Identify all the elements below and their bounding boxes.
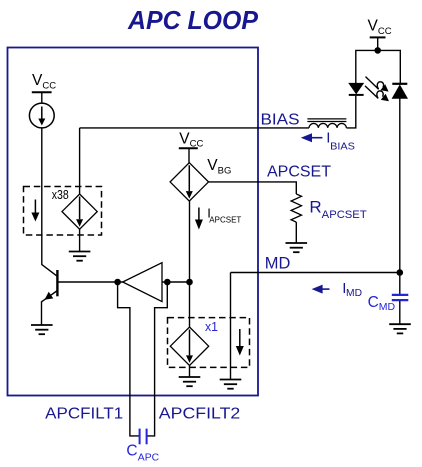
current direction arrow (x1 box right): [236, 329, 244, 356]
current direction arrow (x38 box left): [31, 200, 39, 222]
svg-text:R: R: [309, 198, 321, 217]
capacitor CMD: [392, 295, 409, 300]
node op-amp output junction: [114, 279, 121, 286]
svg-text:APC LOOP: APC LOOP: [127, 5, 259, 35]
wire MD node to CMD: [399, 273, 401, 295]
ground below x1 source: [179, 377, 201, 386]
wire BIAS net vertical to x38 source: [79, 128, 81, 194]
wire inductor to laser diode: [346, 96, 355, 128]
svg-text:BIAS: BIAS: [261, 111, 300, 128]
svg-text:C: C: [126, 443, 137, 460]
wire APCFILT1: [118, 282, 139, 436]
laser diode D1: [349, 83, 364, 95]
transistor Q1 emitter: [42, 291, 58, 326]
svg-text:APCSET: APCSET: [209, 215, 241, 225]
ground below RAPCSET: [286, 243, 308, 252]
wire x38 source to ground: [79, 229, 81, 251]
ground MD sense: [220, 380, 242, 389]
wire MD horizontal: [231, 272, 400, 274]
wire VCC bar to node: [377, 37, 379, 50]
node VCC rail: [374, 47, 381, 54]
ground below CMD: [389, 324, 411, 333]
wire APCFILT2: [147, 282, 167, 436]
svg-text:APCSET: APCSET: [267, 163, 331, 180]
node MD/CMD junction: [397, 269, 404, 276]
svg-text:x1: x1: [205, 320, 218, 334]
wire current source to transistor collector: [42, 128, 58, 276]
light ray arrow 2: [365, 86, 389, 101]
svg-text:MD: MD: [265, 254, 291, 272]
wire VCC-mid to VBG source: [188, 148, 190, 163]
wire top rail: [356, 50, 401, 83]
capacitor CAPC: [140, 429, 147, 445]
wire APCSET: [209, 182, 297, 194]
voltage source VBG: [170, 163, 208, 201]
current arrow IMD: [312, 285, 330, 294]
node op-amp input junction: [164, 279, 171, 286]
svg-text:APCSET: APCSET: [322, 209, 367, 221]
wire x1 source to ground: [189, 365, 191, 377]
svg-text:APC: APC: [138, 452, 160, 464]
dashed box x1 mirror: [168, 318, 250, 368]
ground below transistor emitter: [31, 325, 53, 334]
svg-text:APCFILT2: APCFILT2: [159, 406, 241, 423]
current arrow IAPCSET: [195, 208, 203, 230]
wire op-amp right side to node: [162, 281, 190, 283]
svg-text:APCFILT1: APCFILT1: [45, 406, 123, 423]
wire VBG source down to node: [189, 201, 191, 282]
dashed box x38 mirror: [24, 187, 102, 236]
transistor Q1 base bar: [56, 270, 58, 296]
light ray arrow 1: [366, 77, 389, 92]
wire MD vertical to ground: [230, 273, 232, 380]
svg-text:BIAS: BIAS: [330, 140, 355, 152]
current source I1: [29, 103, 54, 128]
wire photodiode to MD node: [399, 98, 401, 272]
wire node to x1 source: [189, 282, 191, 327]
wire BIAS horizontal: [80, 127, 309, 129]
wire VCC-left to current source: [41, 92, 43, 103]
resistor RAPCSET: [291, 194, 301, 222]
inductor L1: [307, 119, 346, 128]
APC loop block box: [8, 48, 259, 396]
wire resistor to ground: [295, 222, 297, 243]
op-amp U1: [123, 263, 162, 302]
dependent current source x38: [62, 194, 97, 229]
photodiode D2: [392, 84, 407, 99]
dependent current source x1: [170, 327, 208, 365]
svg-text:x38: x38: [52, 188, 69, 202]
node VBG/x1 junction: [186, 279, 193, 286]
wire op-amp output to transistor base: [57, 281, 122, 283]
current arrow IBIAS: [301, 133, 323, 142]
wire CMD to ground: [399, 301, 401, 324]
ground below x38 source: [69, 252, 91, 261]
svg-text:MD: MD: [346, 287, 362, 299]
